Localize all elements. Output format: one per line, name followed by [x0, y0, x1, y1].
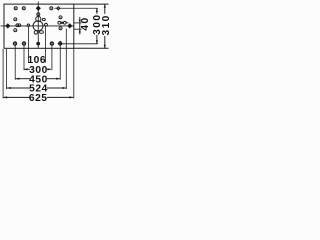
svg-text:40: 40: [80, 16, 91, 30]
svg-text:310: 310: [101, 14, 112, 35]
svg-text:625: 625: [29, 93, 48, 104]
